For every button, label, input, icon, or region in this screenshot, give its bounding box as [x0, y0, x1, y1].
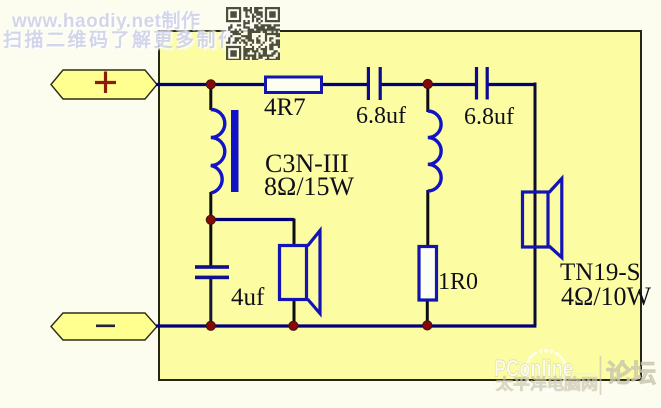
label 6.8uf (C1) — [356, 104, 406, 128]
svg-text:太平洋电脑网: 太平洋电脑网 — [496, 375, 598, 393]
speaker SP1 woofer horn — [308, 231, 321, 314]
label 4uf — [231, 285, 264, 310]
speaker SP1 woofer body — [280, 246, 307, 300]
wire woofer top lead — [293, 219, 296, 247]
inductor L2 coil — [428, 111, 441, 191]
node junction bottom-woofer — [289, 321, 298, 330]
wire woofer bottom lead — [293, 299, 296, 326]
wire bottom bus (- rail) — [156, 324, 536, 327]
resistor 1R0 — [419, 247, 437, 301]
wire mid branch to woofer — [210, 218, 294, 221]
wire L1 top lead — [209, 84, 212, 110]
QR code — [226, 7, 280, 60]
label TN19-S — [560, 260, 641, 285]
resistor 4R7 — [266, 77, 322, 93]
wire L1 bottom lead — [209, 192, 212, 220]
node junction bottom-left — [206, 321, 215, 330]
speaker SP2 tweeter body — [523, 192, 549, 247]
label 8ohm/15W — [264, 174, 354, 200]
terminal - (negative input) — [51, 313, 157, 340]
wire L2 to 1R0 — [426, 190, 429, 247]
label 4ohm/10W — [561, 284, 651, 310]
node junction top-mid — [423, 79, 432, 88]
capacitor C1 6.8uf plates — [367, 67, 382, 100]
label 6.8uf (C2) — [464, 105, 514, 129]
wire L2 top lead — [426, 84, 429, 112]
wire top bus (+ rail) — [156, 83, 536, 86]
capacitor C2 6.8uf plates — [475, 67, 489, 100]
node junction top-left — [206, 80, 215, 89]
wire node to 4uf — [209, 220, 212, 267]
wire 1R0 bottom lead — [426, 299, 429, 326]
capacitor C3 4uf plates — [195, 265, 229, 279]
node junction bottom-1R0 — [423, 321, 432, 330]
inductor L1 coil — [211, 110, 225, 194]
label 4R7 — [264, 95, 306, 120]
label 1R0 — [438, 270, 478, 294]
wire 4uf to bottom bus — [209, 279, 212, 327]
node junction mid-left — [206, 215, 215, 224]
schematic sheet frame — [158, 30, 642, 381]
speaker SP2 tweeter horn — [549, 179, 562, 258]
svg-text:论坛: 论坛 — [606, 360, 656, 388]
inductor L1 core bar — [231, 110, 239, 192]
label C3N-III — [265, 151, 349, 177]
watermark PConline forum logo — [480, 335, 661, 408]
terminal + (positive input) — [51, 70, 157, 99]
wire right vertical to tweeter — [534, 83, 537, 326]
watermark www.haodiy.net — [12, 13, 432, 50]
